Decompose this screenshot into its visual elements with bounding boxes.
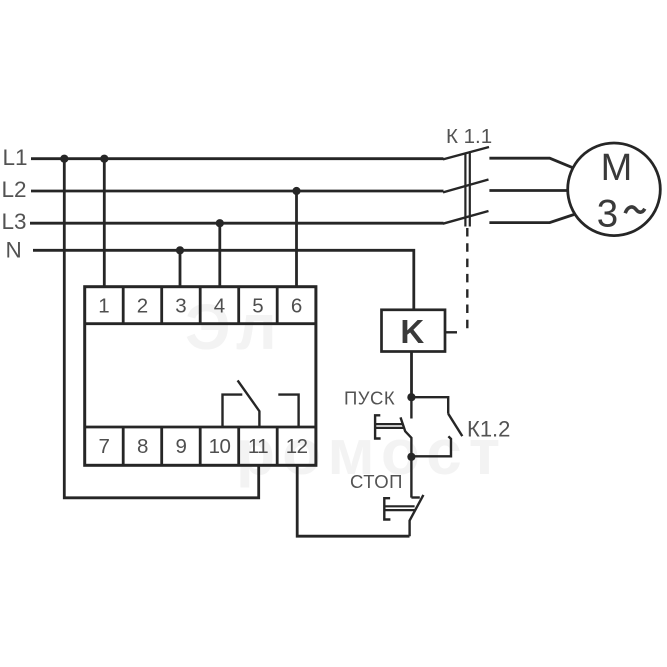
stop button blade [410, 495, 424, 536]
wire N bus to coil K [33, 250, 414, 309]
motor 3-phase label digit [597, 193, 618, 236]
stop button cap [384, 498, 390, 519]
node L3 label [2, 209, 27, 234]
wire K1.1 pole 3 to motor [489, 215, 574, 223]
contact K1.1 blade pole 1 [443, 147, 489, 159]
start button plunger [375, 424, 403, 428]
wire K1.1 pole 2 to motor [489, 189, 568, 192]
internal contact NC side terminal 10 [223, 395, 243, 427]
node lower junction dot [407, 453, 415, 461]
wire L1 bus [31, 157, 444, 160]
svg-text:12: 12 [286, 435, 308, 458]
wire L2 to terminal 6 [295, 191, 298, 287]
node L1 label [3, 145, 28, 170]
contact K1.1 linkage bars [465, 153, 469, 227]
junction dot N terminal 3 [176, 246, 184, 254]
svg-text:L2: L2 [2, 177, 27, 202]
svg-text:L1: L1 [3, 145, 28, 170]
wire L2 bus [31, 190, 444, 193]
stop button СТОП label [350, 471, 403, 492]
wire terminal 12 to stop button [297, 465, 409, 536]
svg-text:К1.2: К1.2 [467, 416, 510, 441]
wire L1 to terminal 1 [103, 159, 106, 287]
svg-text:8: 8 [137, 435, 148, 458]
node L2 label [2, 177, 27, 202]
svg-text:N: N [6, 237, 22, 262]
terminal row top divider [85, 322, 316, 325]
svg-text:11: 11 [248, 435, 268, 458]
motor tilde [625, 207, 645, 213]
svg-text:5: 5 [252, 294, 263, 317]
junction dot L3 terminal 4 [216, 219, 224, 227]
svg-text:СТОП: СТОП [350, 471, 403, 492]
junction dot L1 left [60, 155, 68, 163]
svg-text:L3: L3 [2, 209, 27, 234]
svg-text:К 1.1: К 1.1 [446, 125, 492, 148]
wire K1.1 pole 1 to motor [489, 158, 573, 168]
svg-text:4: 4 [214, 294, 225, 317]
svg-text:9: 9 [176, 435, 187, 458]
svg-text:1: 1 [98, 294, 109, 317]
stop button upper terminal [410, 457, 412, 498]
internal contact blade terminal 11 [238, 380, 260, 427]
start button blade [401, 417, 412, 456]
wire L1 to terminal 11 (left drop and bottom run) [64, 159, 258, 498]
start button ПУСК label [344, 388, 395, 409]
contact K1.2 blade [448, 414, 462, 436]
contact K1.2 upper branch [411, 397, 448, 414]
contact K1.1 label [446, 125, 492, 148]
junction dot L1 terminal 1 [100, 155, 108, 163]
svg-text:K: K [400, 313, 424, 350]
coil K letter [400, 313, 424, 350]
svg-text:2: 2 [137, 294, 148, 317]
start button cap [375, 415, 381, 438]
contact K1.1 blade pole 3 [443, 211, 489, 224]
terminal row bottom divider [85, 426, 316, 429]
terminal cell dividers bottom row [123, 427, 277, 465]
internal contact NO side terminal 12 [278, 395, 298, 427]
stop button NC tick [411, 496, 419, 498]
svg-text:М: М [601, 147, 633, 189]
svg-text:7: 7 [98, 435, 109, 458]
contact K1.2 lower branch [411, 436, 451, 456]
terminal numbers 1-6 [98, 294, 302, 317]
contact K1.1 blade pole 2 [443, 180, 489, 193]
svg-text:ПУСК: ПУСК [344, 388, 395, 409]
terminal numbers 7-12 [98, 435, 307, 458]
watermark [185, 291, 507, 488]
svg-text:6: 6 [291, 294, 302, 317]
wire coil K to start node [410, 352, 413, 398]
relay device body [85, 287, 316, 466]
wire L3 bus [30, 222, 444, 225]
node N label [6, 237, 22, 262]
stop button plunger [384, 506, 415, 510]
coil K right stub [445, 331, 457, 333]
svg-text:10: 10 [209, 435, 231, 458]
wire N to terminal 3 [179, 250, 182, 286]
mechanical link dashed line [466, 228, 468, 333]
contactor coil K box [382, 310, 446, 352]
motor M letter [601, 147, 633, 189]
svg-text:3: 3 [175, 294, 186, 317]
junction dot L2 terminal 6 [292, 187, 300, 195]
wire L3 to terminal 4 [218, 223, 221, 287]
contact K1.2 label [467, 416, 510, 441]
motor M circle [568, 143, 661, 236]
terminal cell dividers top row [123, 287, 277, 324]
svg-text:3: 3 [597, 193, 618, 236]
start button upper terminal [410, 397, 412, 418]
node start junction dot [407, 393, 415, 401]
